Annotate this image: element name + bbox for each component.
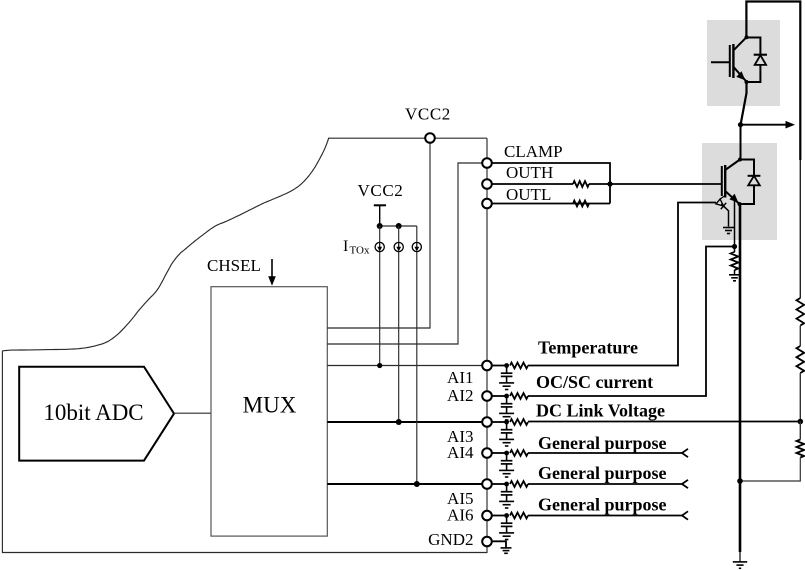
diode D2 freewheel bbox=[740, 160, 761, 205]
svg-text:GND2: GND2 bbox=[428, 530, 473, 549]
junction Q1 emitter bbox=[745, 80, 749, 84]
wire Q2 emitter to ground bbox=[739, 204, 742, 562]
transistor Q2 IGBT low-side bbox=[722, 160, 740, 205]
wire divider R1-R2 bbox=[799, 326, 801, 347]
resistor shunt bbox=[731, 252, 739, 270]
junction AI5 current source bbox=[414, 481, 420, 487]
label AI4 bbox=[447, 443, 474, 462]
wire phase to Q2 collector bbox=[740, 125, 742, 160]
pin OUTH bbox=[482, 179, 492, 189]
ground AI6 filter bbox=[499, 533, 514, 540]
capacitor AI6 filter bbox=[501, 516, 513, 533]
wire OUTH to resistor bbox=[492, 183, 573, 185]
current source I_TOx 3 bbox=[412, 242, 421, 251]
wire shunt to ground bbox=[734, 247, 736, 275]
svg-text:General purpose: General purpose bbox=[538, 433, 667, 453]
pin GND2 bbox=[482, 537, 492, 547]
wire AI3 pin to filter bbox=[492, 421, 507, 423]
capacitor AI2 filter bbox=[501, 396, 513, 413]
ground GND2 bbox=[501, 548, 512, 553]
junction AI2 filter bbox=[504, 394, 509, 399]
svg-text:Temperature: Temperature bbox=[538, 338, 638, 358]
10bit ADC block bbox=[19, 367, 174, 461]
VCC2 label top bbox=[405, 105, 451, 124]
junction AI1 current source bbox=[377, 363, 382, 368]
junction AI3 filter bbox=[504, 420, 509, 425]
capacitor AI4 filter bbox=[501, 453, 513, 470]
junction AI6 filter bbox=[504, 513, 509, 518]
wire MUX to CLAMP pin bbox=[327, 163, 482, 344]
svg-text:I: I bbox=[343, 238, 348, 255]
svg-text:CLAMP: CLAMP bbox=[504, 142, 563, 161]
label OUTL bbox=[506, 185, 551, 204]
pin AI5 bbox=[482, 479, 492, 489]
junction AI5 filter bbox=[504, 482, 509, 487]
wire Q1 emitter to phase node bbox=[741, 82, 747, 125]
resistor AI3 filter bbox=[510, 419, 528, 425]
pin AI1 bbox=[482, 361, 492, 371]
wire DC Link Voltage bbox=[528, 421, 800, 423]
svg-text:General purpose: General purpose bbox=[538, 495, 667, 515]
ground temperature sense bbox=[723, 228, 734, 234]
label CLAMP bbox=[504, 142, 563, 161]
wire General purpose 2 bbox=[528, 480, 688, 488]
diode temperature sense bbox=[716, 196, 729, 227]
capacitor AI5 filter bbox=[501, 484, 513, 501]
MUX block bbox=[211, 287, 327, 536]
label DC Link Voltage bbox=[536, 401, 665, 421]
ground main bbox=[733, 562, 747, 568]
svg-text:OUTH: OUTH bbox=[506, 163, 553, 182]
label AI5 bbox=[447, 489, 473, 508]
junction Q1 collector bbox=[745, 35, 749, 39]
capacitor AI1 filter bbox=[501, 366, 513, 383]
junction gate node bbox=[607, 181, 612, 186]
junction divider tap bbox=[798, 419, 804, 425]
resistor AI4 filter bbox=[510, 450, 528, 456]
junction shunt top bbox=[732, 244, 737, 249]
wire OUTL external bbox=[492, 203, 610, 205]
wire MUX to VCC2 pin bbox=[327, 142, 430, 328]
junction rail-2 bbox=[396, 223, 402, 229]
pin OUTL bbox=[482, 199, 492, 209]
ground shunt bbox=[729, 275, 740, 281]
label GND2 bbox=[428, 530, 473, 549]
VCC2 supply T-bar bbox=[374, 205, 386, 226]
svg-text:MUX: MUX bbox=[243, 393, 297, 418]
I TOx label bbox=[343, 238, 370, 257]
wire current source column 1 bbox=[379, 226, 381, 366]
wire MUX to AI5 pin bbox=[327, 483, 483, 485]
svg-text:OUTL: OUTL bbox=[506, 185, 551, 204]
wire MUX to AI1 pin bbox=[327, 365, 483, 367]
pin CLAMP bbox=[482, 158, 492, 168]
ground AI4 filter bbox=[499, 470, 514, 477]
pin AI2 bbox=[482, 391, 492, 401]
svg-text:VCC2: VCC2 bbox=[405, 105, 451, 124]
svg-text:VCC2: VCC2 bbox=[358, 181, 404, 200]
junction divider bottom bbox=[737, 478, 743, 484]
svg-text:DC Link Voltage: DC Link Voltage bbox=[536, 401, 665, 421]
label OC/SC current bbox=[536, 372, 653, 392]
wire AI2 pin to filter bbox=[492, 395, 507, 397]
resistor divider R3 bbox=[797, 440, 805, 458]
wire divider R2-node bbox=[799, 373, 801, 422]
svg-text:General purpose: General purpose bbox=[538, 463, 667, 483]
junction AI3 current source bbox=[396, 419, 402, 425]
wire AI5 pin to filter bbox=[492, 483, 507, 485]
svg-text:CHSEL: CHSEL bbox=[207, 256, 261, 275]
ground AI5 filter bbox=[499, 501, 514, 508]
junction phase node bbox=[738, 122, 743, 127]
current source supply rail bbox=[380, 225, 417, 227]
wire AI4 pin to filter bbox=[492, 452, 507, 454]
ground AI1 filter bbox=[499, 383, 514, 390]
capacitor AI3 filter bbox=[501, 422, 513, 439]
wire ADC to MUX bbox=[174, 412, 211, 414]
junction AI4 filter bbox=[504, 451, 509, 456]
phase output arrow bbox=[741, 121, 796, 129]
wire DC+ bus top bbox=[746, 2, 800, 299]
svg-text:10bit ADC: 10bit ADC bbox=[43, 400, 143, 425]
label AI1 bbox=[447, 368, 473, 387]
resistor OUTL gate bbox=[573, 201, 589, 207]
label Temperature bbox=[538, 338, 638, 358]
wire AI6 pin to filter bbox=[492, 515, 507, 517]
diode D1 freewheel bbox=[747, 38, 768, 83]
resistor AI6 filter bbox=[510, 513, 528, 519]
wire GND2 to ground bbox=[492, 541, 506, 547]
CHSEL select arrow bbox=[268, 259, 276, 286]
junction Q2 collector bbox=[738, 158, 742, 162]
label AI2 bbox=[447, 386, 473, 405]
svg-text:AI4: AI4 bbox=[447, 443, 474, 462]
label General purpose 3 bbox=[538, 495, 667, 515]
ground AI3 filter bbox=[499, 439, 514, 446]
junction Q2 emitter bbox=[738, 202, 742, 206]
svg-text:AI2: AI2 bbox=[447, 386, 473, 405]
resistor divider R2 bbox=[797, 346, 805, 373]
pin VCC2 bbox=[425, 133, 435, 143]
wire MUX to AI3 pin bbox=[327, 421, 483, 423]
resistor AI1 filter bbox=[510, 363, 528, 369]
IGBT module shading top bbox=[707, 20, 780, 106]
wire Q2 sense emitter bbox=[734, 199, 736, 247]
wire General purpose 1 bbox=[528, 449, 688, 457]
wire divider bottom bbox=[740, 458, 800, 482]
svg-text:AI6: AI6 bbox=[447, 506, 473, 525]
wire General purpose 3 bbox=[528, 511, 688, 519]
transistor Q1 IGBT high-side bbox=[711, 37, 747, 81]
current source I_TOx 2 bbox=[394, 242, 403, 251]
ground AI2 filter bbox=[499, 413, 514, 420]
label AI6 bbox=[447, 506, 473, 525]
label AI3 bbox=[447, 427, 473, 446]
wire CLAMP external bbox=[492, 163, 610, 204]
current source I_TOx 1 bbox=[375, 242, 384, 251]
pin AI6 bbox=[482, 511, 492, 521]
svg-text:TOx: TOx bbox=[350, 245, 370, 257]
VCC2 label internal bbox=[358, 181, 404, 200]
wire OC/SC current bbox=[528, 247, 735, 397]
label General purpose 1 bbox=[538, 433, 667, 453]
svg-text:OC/SC current: OC/SC current bbox=[536, 372, 653, 392]
resistor AI2 filter bbox=[510, 393, 528, 399]
junction rail-1 bbox=[377, 223, 383, 229]
junction AI1 filter bbox=[504, 363, 509, 368]
resistor OUTH gate bbox=[573, 181, 589, 187]
wire divider node-R3 bbox=[799, 422, 801, 440]
label OUTH bbox=[506, 163, 553, 182]
CHSEL label bbox=[207, 256, 261, 275]
wire OUTH resistor to node bbox=[589, 183, 610, 185]
svg-text:AI1: AI1 bbox=[447, 368, 473, 387]
wire current source column 3 bbox=[416, 226, 418, 484]
pin AI4 bbox=[482, 448, 492, 458]
wire gate node to IGBT gate bbox=[610, 183, 722, 185]
wire Temperature bbox=[528, 203, 716, 366]
wire AI1 pin to filter bbox=[492, 365, 507, 367]
IC boundary outline with squiggle curve bbox=[2, 138, 487, 552]
resistor divider R1 bbox=[797, 298, 805, 326]
label General purpose 2 bbox=[538, 463, 667, 483]
resistor AI5 filter bbox=[510, 481, 528, 487]
IGBT module shading bottom bbox=[702, 143, 777, 240]
pin AI3 bbox=[482, 417, 492, 427]
wire current source column 2 bbox=[398, 226, 400, 422]
